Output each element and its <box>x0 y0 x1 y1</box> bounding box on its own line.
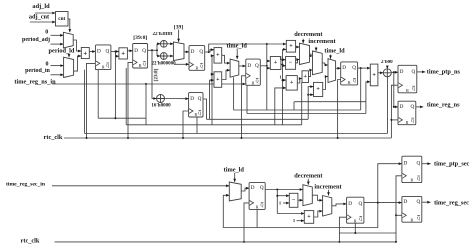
adder A7 <box>286 76 297 91</box>
wire feedback bus y124.8 <box>126 124 302 126</box>
svg-text:cnt: cnt <box>58 16 65 22</box>
wire reg R2 drop to bus y124.8 <box>125 68 127 125</box>
wire rtc_clk bus (top) <box>64 137 391 139</box>
svg-text:Q: Q <box>411 118 414 123</box>
svg-text:Q: Q <box>106 63 109 68</box>
svg-text:period_ld: period_ld <box>49 48 75 55</box>
wire clk riser to reg R7 <box>391 85 398 138</box>
svg-text:D: D <box>342 65 346 71</box>
wire const 22'h000000 into reg R4 <box>174 63 189 65</box>
wire branch up to reg R11 D <box>378 164 402 203</box>
wire bus y101.7 left drop <box>293 102 295 110</box>
wire bus riser to adder A4 second input <box>212 56 214 125</box>
wire mux M2 out to adder A1 <box>74 56 82 71</box>
svg-text:16'h0000: 16'h0000 <box>151 104 171 109</box>
wire reg R1 Q feedback down to bus <box>114 52 116 119</box>
wire adj_cnt input <box>30 21 56 23</box>
wire rtc_clk bus (bottom) <box>55 241 396 243</box>
wire cnt to mux M1 select <box>68 19 70 32</box>
wire adder A10 out to xor X4 <box>378 72 383 74</box>
wire bus y133.5 riser up to xor X4 <box>387 77 389 134</box>
wire const0 to mux M1 <box>51 34 64 36</box>
register R12 (time_reg_sec) <box>402 196 422 222</box>
wire reg R6 Q feedback down to bus <box>360 68 362 110</box>
svg-text:Q: Q <box>359 217 362 222</box>
wire R9 Q branch down <box>276 190 278 214</box>
svg-text:Q: Q <box>256 79 259 84</box>
svg-text:Q: Q <box>416 161 420 167</box>
wire clk riser to reg R1 <box>87 63 96 138</box>
wire adder A4 out to mux M4 <box>222 55 230 63</box>
wire riser stub to adder A6 second input <box>283 48 287 50</box>
svg-text:+: + <box>372 72 376 79</box>
wire mux M10 out to reg R10 D <box>332 204 347 206</box>
wire adder A2 out to reg R2 D <box>127 50 132 52</box>
wire stub into reg R8 D <box>394 106 398 108</box>
wire const1 to subtractor S2 <box>283 202 289 204</box>
svg-text:22'h000000: 22'h000000 <box>152 62 177 67</box>
wire const0 to mux M2 <box>51 65 64 67</box>
svg-text:Q: Q <box>198 96 202 102</box>
wire adder A11 out to mux M10 <box>314 211 323 217</box>
svg-text:Q: Q <box>352 65 356 71</box>
register R2 [39:0] <box>133 44 148 69</box>
wire reg R1 Q to adder A2 <box>111 51 119 53</box>
svg-text:rtc_clk: rtc_clk <box>21 238 40 245</box>
wire xor pair vertical split <box>156 44 158 56</box>
wire mux M7 out to reg R6 D <box>336 67 341 69</box>
svg-text:time_reg_sec_in: time_reg_sec_in <box>6 181 46 187</box>
wire [39] select into mux M3 <box>178 30 180 42</box>
wire clk riser to reg R9 <box>244 203 249 242</box>
wire riser stub to adder A7 input <box>283 79 287 81</box>
register R11 (time_ptp_sec) <box>402 156 422 183</box>
svg-text:rtc_clk: rtc_clk <box>44 134 63 141</box>
wire adder A5 out to mux M4 <box>222 70 230 79</box>
xor X1 <box>160 40 167 47</box>
wire decrement to mux M9 select <box>307 179 309 185</box>
svg-text:R: R <box>252 80 255 85</box>
wire bit-select [23:8] drop to xor X3 <box>152 50 157 98</box>
svg-text:2'b00: 2'b00 <box>381 60 393 65</box>
svg-text:+: + <box>216 77 220 83</box>
svg-text:R: R <box>411 178 414 183</box>
wire reg R8 Q to output time_reg_ns <box>416 106 424 108</box>
wire sec feedback loop R10 Q to mux M8 <box>223 195 377 227</box>
wire const1 to subtractor S1 <box>283 65 286 67</box>
svg-text:time_ptp_sec: time_ptp_sec <box>434 160 470 167</box>
wire mux M3 out to reg R4 D <box>184 51 189 53</box>
wire period_in to mux M2 <box>51 74 64 76</box>
svg-text:R: R <box>406 120 409 125</box>
wire reg R3 reset drop <box>196 117 198 134</box>
wire clk riser to reg R5 <box>242 76 246 138</box>
svg-text:increment: increment <box>314 184 342 191</box>
wire xor X3 out to reg R3 D <box>165 98 189 100</box>
adder A9 <box>314 82 323 96</box>
wire reg R1 reset drop <box>97 70 99 119</box>
svg-text:D: D <box>251 185 255 191</box>
svg-text:R: R <box>406 88 409 93</box>
wire time_ld to mux M4 select <box>236 49 238 60</box>
svg-text:increment: increment <box>308 38 336 45</box>
wire bus y133.5 left end riser <box>84 70 86 134</box>
xor X3 <box>157 95 165 103</box>
svg-text:R: R <box>348 80 351 85</box>
svg-text:R: R <box>256 205 259 210</box>
svg-text:adj_cnt: adj_cnt <box>29 14 50 21</box>
svg-text:D: D <box>348 201 352 207</box>
svg-text:period_in: period_in <box>25 68 50 74</box>
wire subtractor S1 out to mux M5 <box>296 60 300 63</box>
mux M7 (time_ld) <box>328 59 336 83</box>
wire mux M5 out to mux M6 <box>310 54 313 56</box>
adder A5 <box>214 72 222 88</box>
svg-text:+: + <box>216 53 220 59</box>
svg-text:+: + <box>290 80 294 86</box>
wire reg R11 Q to output time_ptp_sec <box>422 163 431 165</box>
mux M9 (decrement sec) <box>303 185 312 206</box>
wire reg R1 Q feedback to adder A2 second input <box>115 52 119 57</box>
svg-text:D: D <box>97 49 101 55</box>
wire const1 to adder A11 <box>297 220 305 222</box>
svg-text:R: R <box>102 65 105 70</box>
wire mux M6 out to mux M7 <box>322 63 328 65</box>
svg-text:Q: Q <box>412 86 415 91</box>
svg-text:+: + <box>83 49 87 57</box>
wire junction stub to adder A3 input 2 <box>267 67 271 69</box>
svg-text:decrement: decrement <box>294 31 323 38</box>
wire mux M4 out to reg R5 D <box>239 65 246 67</box>
register R6 <box>341 62 358 85</box>
svg-text:Q: Q <box>199 49 203 55</box>
svg-text:Q: Q <box>411 69 415 75</box>
wire reg R3 Q down to bus <box>203 99 207 119</box>
wire mux M1 out to adder A1 <box>73 40 81 51</box>
svg-text:time_reg_sec: time_reg_sec <box>434 199 469 206</box>
svg-text:Q: Q <box>260 185 264 191</box>
subtractor S2 <box>289 193 298 207</box>
wire riser stub to subtractor S1 input <box>283 59 286 61</box>
svg-text:D: D <box>404 199 408 205</box>
register R7 (time_ptp_ns) <box>398 65 417 93</box>
wire into xor X1 <box>157 43 160 45</box>
wire adder A8 out to mux M6 <box>309 70 313 77</box>
svg-text:0: 0 <box>45 30 48 36</box>
mux M8 (time_ld sec) <box>229 182 241 201</box>
svg-text:0: 0 <box>46 62 49 68</box>
mux M1 (adj) <box>63 32 73 48</box>
adder A11 <box>304 211 313 224</box>
wire bus riser to mux M4 lower input <box>233 77 235 110</box>
register R10 <box>347 197 364 223</box>
wire clk stub to reg R12 <box>396 214 402 216</box>
wire mux M9 out to mux M10 <box>312 195 322 200</box>
svg-text:Q: Q <box>142 48 146 54</box>
wire adder A6 out to mux M5 <box>296 46 300 48</box>
svg-text:Q: Q <box>359 201 363 207</box>
wire junction stub to adder A3 input 1 <box>267 60 271 62</box>
svg-text:adj_ld: adj_ld <box>32 3 50 10</box>
wire reg R4 Q up and right to adder A6 (top feedback) <box>209 44 287 52</box>
wire reg R6 Q to adder A10 <box>358 67 371 69</box>
wire clk riser to reg R10 <box>339 217 346 242</box>
wire feedback bus y110 <box>234 109 361 111</box>
svg-text:+: + <box>307 214 311 220</box>
svg-text:R: R <box>139 63 142 68</box>
svg-text:Q: Q <box>143 61 146 66</box>
register R3 <box>189 93 203 118</box>
wire decrement to mux M5 select <box>302 39 304 44</box>
svg-text:[23:8]: [23:8] <box>154 68 159 81</box>
svg-text:D: D <box>247 63 251 69</box>
wire feedback riser at x267 <box>266 44 268 110</box>
wire increment to mux M6 select <box>315 47 317 51</box>
wire reg R5 Q to junction <box>260 65 267 67</box>
wire long feedback bus y133.5 <box>85 133 388 135</box>
wire time_reg_ns_in bus <box>52 83 246 85</box>
svg-text:Q: Q <box>417 176 420 181</box>
register R1 <box>95 45 111 70</box>
wire bus riser to adder A10 second input <box>366 82 370 114</box>
svg-text:period_adj: period_adj <box>22 37 50 43</box>
svg-text:Q: Q <box>353 78 356 83</box>
wire reset bus y233 <box>339 232 396 234</box>
svg-text:decrement: decrement <box>294 173 323 180</box>
register R9 <box>249 183 265 210</box>
svg-text:time_reg_ns_in: time_reg_ns_in <box>14 79 56 86</box>
wire period_adj to mux M1 <box>51 43 64 45</box>
svg-text:+: + <box>274 60 278 66</box>
wire xor X4 out to reg R7 D <box>391 71 398 73</box>
wire branch stub to adder A11 <box>277 213 304 215</box>
adder A2 <box>119 48 128 59</box>
wire time_ld to mux M8 select <box>234 173 236 182</box>
register R8 (time_reg_ns) <box>398 101 416 125</box>
wire reg R10 Q to reg R12 D <box>364 202 402 204</box>
wire clk riser to regs R11 R12 <box>396 176 402 242</box>
svg-text:Q: Q <box>255 63 259 69</box>
wire subtractor S2 out to mux M9 <box>298 199 303 201</box>
wire xor X1 out to mux M3 <box>167 43 173 45</box>
wire branch stub to subtractor S2 <box>277 195 289 197</box>
svg-text:R: R <box>194 112 197 117</box>
svg-text:D: D <box>404 161 408 167</box>
svg-text:Q: Q <box>410 104 414 110</box>
svg-text:Q: Q <box>261 203 264 208</box>
wire xor X2 out to mux M3 <box>167 55 173 57</box>
wire adder A8 down riser <box>301 83 303 125</box>
mux M3 <box>173 42 184 61</box>
wire adder A1 out to reg R1 D <box>89 51 95 53</box>
wire clk riser to reg R6 <box>338 80 341 139</box>
svg-text:+: + <box>289 43 293 49</box>
adder A3 <box>270 57 281 70</box>
wire riser stub to adder A5 input <box>212 73 214 75</box>
mux M5 (decrement) <box>300 43 310 64</box>
svg-text:D: D <box>191 49 195 55</box>
wire reg R7 Q to output time_ptp_ns <box>417 71 426 73</box>
wire reg R9 Q to mux M9 <box>265 189 303 191</box>
wire reg R9 reset stub <box>256 209 258 227</box>
svg-text:Q: Q <box>416 199 420 205</box>
svg-text:+: + <box>121 50 125 58</box>
svg-text:D: D <box>400 104 404 110</box>
wire time_reg_sec_in bus <box>52 185 229 187</box>
wire feedback bus y101.7 <box>294 101 366 103</box>
svg-text:R: R <box>196 65 199 70</box>
wire feedback bus y120 <box>207 118 309 120</box>
svg-text:Q: Q <box>200 64 203 69</box>
wire time_ld to mux M7 select <box>330 55 332 59</box>
svg-text:−: − <box>292 198 296 204</box>
svg-text:time_reg_ns: time_reg_ns <box>427 102 460 109</box>
svg-text:Q: Q <box>198 110 201 115</box>
wire const 2'b00 into xor X4 <box>386 66 388 69</box>
wire clk riser to reg R2 <box>128 62 133 138</box>
svg-text:Q: Q <box>106 49 110 55</box>
counter cnt <box>56 12 69 27</box>
svg-text:D: D <box>190 96 194 102</box>
adder A8 <box>302 71 309 83</box>
mux M2 (period) <box>64 57 74 77</box>
adder A1 <box>81 48 89 59</box>
wire branch down from time_reg_ns_in to bus y124.8 <box>145 84 147 125</box>
wire clk stub to reg R8 <box>391 119 398 121</box>
mux M4 <box>230 59 239 77</box>
svg-text:−: − <box>289 60 293 66</box>
wire adj_ld input <box>35 12 56 14</box>
svg-text:time_ld: time_ld <box>224 167 245 174</box>
mux M6 (increment) <box>313 51 323 75</box>
svg-text:time_ld: time_ld <box>324 48 345 55</box>
wire reg R10 reset stub <box>354 223 356 233</box>
svg-text:R: R <box>354 218 357 223</box>
adder A6 <box>286 40 295 52</box>
svg-text:[39:0]: [39:0] <box>133 35 147 41</box>
wire clk riser to reg R3 <box>183 111 189 138</box>
wire riser stub to adder A5 second input <box>210 80 215 119</box>
wire into xor X2 <box>157 55 160 57</box>
wire reg R12 Q to output time_reg_sec <box>422 201 431 203</box>
svg-text:+: + <box>316 87 320 93</box>
wire feedback bus y118 <box>98 117 146 119</box>
wire reg R2 Q to xor pair <box>148 49 157 51</box>
wire mux M8 out to reg R9 D <box>241 188 249 191</box>
wire increment to mux M10 select <box>328 190 330 196</box>
register R4 <box>189 46 205 71</box>
register R5 <box>246 59 260 85</box>
svg-text:time_ptp_ns: time_ptp_ns <box>427 68 461 75</box>
svg-text:D: D <box>400 69 404 75</box>
svg-text:+: + <box>304 74 308 80</box>
wire sum branch down to reg R8 D <box>393 72 395 107</box>
wire bus riser to reg R5 reset <box>246 85 248 113</box>
xor X2 <box>160 53 167 60</box>
wire feedback riser at x282 <box>282 49 284 124</box>
svg-text:[39]: [39] <box>174 25 183 31</box>
wire adder A7 out to adder A8 <box>297 79 302 84</box>
svg-text:time_ld: time_ld <box>227 42 248 49</box>
wire feedback bus y113 <box>247 113 366 115</box>
subtractor S1 <box>286 57 296 70</box>
wire adder A9 out to mux M7 <box>323 77 328 90</box>
mux M10 (increment sec) <box>323 196 332 217</box>
wire period_ld to mux M2 select <box>68 54 70 57</box>
adder A10 <box>370 64 378 86</box>
wire reg R4 Q to adder A4 <box>205 50 214 52</box>
wire riser x308 to adder A9 input <box>308 87 313 120</box>
svg-text:R: R <box>411 217 414 222</box>
svg-text:D: D <box>134 48 138 54</box>
svg-text:Q: Q <box>417 216 420 221</box>
wire adder A3 out to riser x282 <box>281 64 283 66</box>
wire riser stub to adder A9 second input <box>308 94 313 96</box>
xor X4 <box>383 69 391 77</box>
wire riser x275 to adder A7 second input <box>275 88 286 125</box>
adder A4 <box>214 48 222 64</box>
svg-text:22'h3fffff: 22'h3fffff <box>153 32 173 37</box>
